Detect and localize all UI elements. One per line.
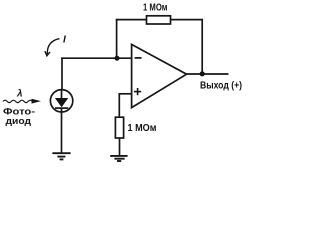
wire: non-inverting node down to resistor R2: [118, 93, 120, 117]
wire: feedback top horizontal to resistor R1: [116, 19, 147, 21]
photodiode D1 cathode bar: [55, 107, 68, 109]
photodiode D1 arrow (filled triangle, anode): [55, 98, 68, 107]
ground symbol under resistor R2: [110, 156, 127, 161]
junction node at output: [200, 71, 205, 76]
photodiode D1 circle: [50, 90, 72, 112]
svg-text:Выход (+): Выход (+): [200, 80, 242, 92]
wire: inverting input horizontal (photodiode node to op-amp minus input): [61, 57, 132, 59]
wire: left vertical drop to photodiode anode: [61, 57, 63, 90]
svg-text:λ: λ: [16, 89, 23, 100]
lambda light arrow (wavy): [3, 100, 33, 102]
op-amp U1 triangle: [132, 44, 187, 107]
svg-text:1 МОм: 1 МОм: [128, 122, 157, 134]
wire: R1 right side to output node (top run + right drop): [171, 20, 203, 73]
wire: photodiode anode lead inside circle: [61, 90, 63, 99]
resistor R1 (feedback) body: [147, 16, 171, 24]
resistor R2 (to ground) body: [115, 117, 123, 138]
ground symbol under photodiode: [52, 153, 70, 159]
wire: feedback riser from inverting node: [116, 19, 118, 58]
wire: photodiode cathode lead down to ground: [61, 108, 63, 153]
wire: R2 bottom lead to ground: [119, 138, 121, 156]
op-amp minus input sign: [135, 57, 142, 59]
current arrow I (curved): [47, 39, 59, 55]
junction node at inverting input: [115, 56, 120, 61]
op-amp plus input sign: [134, 88, 141, 95]
svg-text:1 МОм: 1 МОм: [143, 1, 168, 13]
wire: non-inverting input horizontal: [119, 93, 132, 95]
svg-text:I: I: [63, 34, 66, 45]
wire: op-amp output to terminal: [187, 73, 229, 75]
svg-text:диод: диод: [6, 116, 32, 127]
